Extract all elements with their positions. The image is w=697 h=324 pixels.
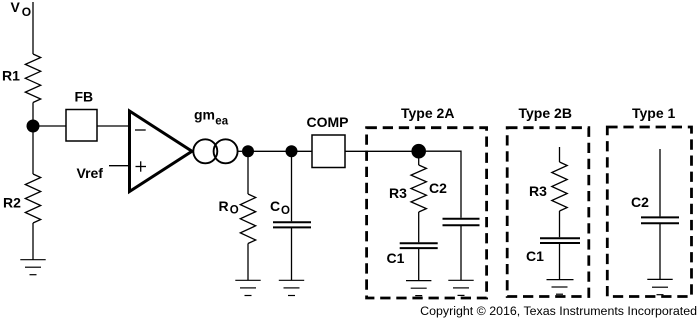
resistor R1 <box>2 54 41 103</box>
current source gm_ea <box>193 106 237 163</box>
ground (CO) <box>279 280 304 295</box>
dashed box Type 2A <box>367 105 487 298</box>
ground (divider) <box>20 260 45 275</box>
capacitor C2 (Type 2A) <box>429 180 480 225</box>
resistor R3 (Type 2A) <box>389 165 426 212</box>
node 1 (gm output) <box>242 145 254 157</box>
svg-text:R: R <box>219 198 229 214</box>
ground (Type 1) <box>647 279 672 294</box>
svg-text:Copyright © 2016, Texas Instru: Copyright © 2016, Texas Instruments Inco… <box>420 304 697 318</box>
dashed box Type 2B <box>507 105 589 297</box>
svg-text:V: V <box>11 0 21 15</box>
svg-text:Type 2B: Type 2B <box>519 105 572 121</box>
wire node 1 to RO <box>247 151 249 194</box>
ground (Type 2A right) <box>448 280 473 295</box>
wire C1 to ground (Type 2A) <box>418 248 420 281</box>
wire C1 to ground (Type 2B) <box>559 243 561 280</box>
svg-text:gm: gm <box>194 106 215 122</box>
block COMP <box>307 114 349 168</box>
capacitor C1 (Type 2B) <box>526 238 580 264</box>
net label VO <box>11 0 32 19</box>
op-amp U1 <box>130 111 193 192</box>
svg-text:FB: FB <box>75 89 94 105</box>
svg-text:R3: R3 <box>389 185 407 201</box>
wire node to C2 branch (Type 2A) <box>426 151 461 218</box>
wire stub to C2 (Type 1) <box>659 149 661 216</box>
svg-text:C: C <box>270 198 280 214</box>
svg-text:Type 1: Type 1 <box>632 105 676 121</box>
svg-text:R2: R2 <box>3 195 21 211</box>
capacitor CO <box>270 198 311 227</box>
svg-text:Type 2A: Type 2A <box>401 105 454 121</box>
capacitor C2 (Type 1) <box>631 194 679 223</box>
wire C2 to ground (Type 1) <box>659 223 661 279</box>
wire node to R3 (Type 2A) <box>418 151 420 165</box>
svg-text:COMP: COMP <box>307 114 349 130</box>
dashed box Type 1 <box>607 105 691 297</box>
node FB junction <box>27 120 40 133</box>
node Type 2A input <box>411 144 426 159</box>
wire COMP to Type 2A node <box>345 150 419 152</box>
svg-text:Vref: Vref <box>77 165 104 181</box>
wire VO to R1 <box>32 2 34 54</box>
ground (Type 2A left) <box>406 281 431 296</box>
svg-text:ea: ea <box>215 116 228 128</box>
svg-text:O: O <box>281 205 290 217</box>
wire C2 to ground (Type 2A) <box>460 225 462 280</box>
capacitor C1 (Type 2A) <box>387 243 438 266</box>
wire R3 to C1 (Type 2B) <box>559 211 561 237</box>
wire R2 to ground <box>32 223 34 260</box>
wire CO to ground <box>291 227 293 280</box>
svg-text:R3: R3 <box>529 183 547 199</box>
node 2 (CO) <box>286 145 298 157</box>
svg-text:C2: C2 <box>429 180 447 196</box>
wire stub to R3 (Type 2B) <box>559 147 561 162</box>
wire Vref to op-amp non-inverting input <box>109 165 130 167</box>
wire node to R2 <box>32 126 34 174</box>
wire gm output to node 1 <box>238 150 242 152</box>
ground (RO) <box>235 280 260 295</box>
wire node 1 to node 2 <box>248 150 292 152</box>
wire RO to ground <box>247 244 249 281</box>
svg-text:C2: C2 <box>631 194 649 210</box>
block FB <box>66 89 97 142</box>
svg-text:O: O <box>230 205 239 217</box>
wire R3 to C1 (Type 2A) <box>418 212 420 242</box>
wire node 2 to COMP block <box>292 150 313 152</box>
resistor R2 <box>3 174 41 223</box>
ground (Type 2B) <box>547 280 574 295</box>
svg-text:R1: R1 <box>2 68 20 84</box>
wire node 2 to CO <box>291 151 293 221</box>
svg-text:C1: C1 <box>387 250 405 266</box>
svg-text:C1: C1 <box>526 248 544 264</box>
wire node to FB block <box>38 125 66 127</box>
wire R1 to feedback node <box>32 103 34 123</box>
svg-text:O: O <box>22 5 31 19</box>
resistor R3 (Type 2B) <box>529 162 567 211</box>
resistor RO <box>219 194 256 244</box>
wire FB to op-amp inverting input <box>97 125 130 127</box>
